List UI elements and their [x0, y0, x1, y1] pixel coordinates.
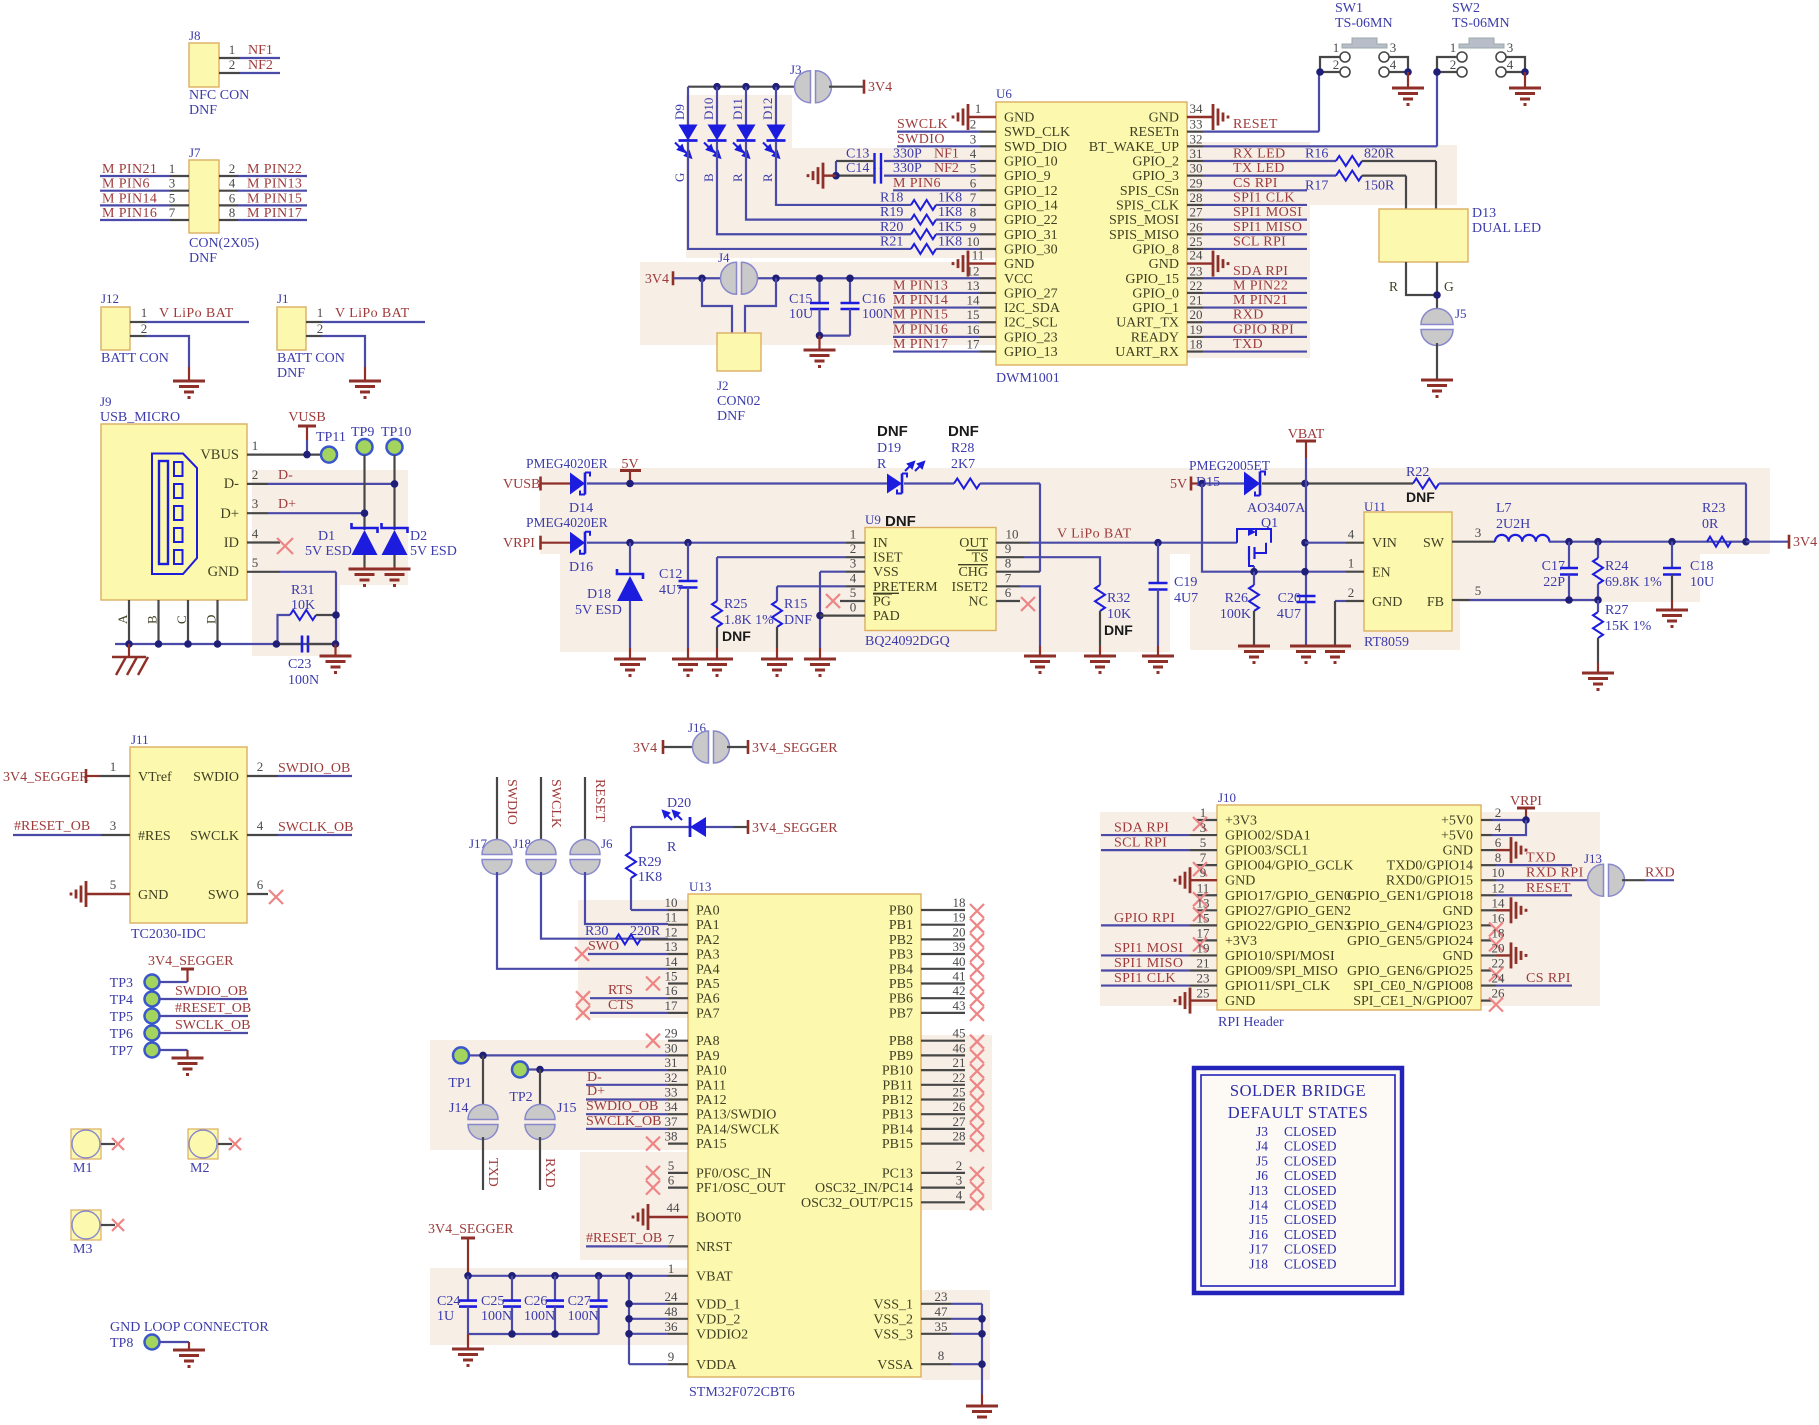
svg-text:PMEG4020ER: PMEG4020ER: [526, 456, 608, 471]
svg-text:NF2: NF2: [248, 58, 273, 73]
svg-text:CLOSED: CLOSED: [1284, 1212, 1337, 1227]
svg-text:+5V0: +5V0: [1441, 829, 1473, 844]
svg-text:820R: 820R: [1364, 146, 1395, 161]
junction TP9/D+: [361, 509, 369, 517]
svg-text:M PIN13: M PIN13: [247, 177, 302, 192]
svg-text:V LiPo BAT: V LiPo BAT: [335, 306, 410, 321]
testpoint TP6 net SWCLK_OB: [110, 1018, 251, 1042]
svg-text:PMEG2005ET: PMEG2005ET: [1189, 458, 1271, 473]
svg-text:21: 21: [1190, 293, 1203, 308]
svg-text:SW1: SW1: [1335, 1, 1363, 16]
svg-text:R24: R24: [1605, 559, 1628, 574]
wire J11 pin2 net SWDIO_OB: [247, 759, 352, 776]
svg-text:#RESET_OB: #RESET_OB: [586, 1231, 662, 1246]
svg-text:SOLDER BRIDGE: SOLDER BRIDGE: [1230, 1081, 1366, 1100]
svg-text:48: 48: [665, 1304, 678, 1319]
ground SW2: [1509, 72, 1541, 105]
wire J10 pin19 net SPI1_MOSI: [1101, 940, 1217, 956]
svg-text:27: 27: [953, 1114, 967, 1129]
svg-text:GPIO11/SPI_CLK: GPIO11/SPI_CLK: [1225, 979, 1330, 994]
wire U13 VSS rail to ground: [921, 1289, 982, 1405]
capacitor C12 4U7: [659, 543, 698, 658]
wire U6 pin20 net RXD: [1187, 307, 1307, 323]
svg-text:PB5: PB5: [889, 977, 913, 992]
svg-text:5: 5: [169, 190, 176, 205]
junction C23 right: [332, 640, 340, 648]
wire U13 PF1 no-connect: [646, 1173, 688, 1195]
svg-text:14: 14: [1492, 895, 1506, 910]
svg-text:SPI1 MOSI: SPI1 MOSI: [1233, 205, 1302, 220]
svg-text:SWCLK_OB: SWCLK_OB: [175, 1018, 250, 1033]
svg-text:12: 12: [967, 263, 980, 278]
svg-text:SWDIO_OB: SWDIO_OB: [278, 761, 350, 776]
wire to 3V4 output bar: [1746, 541, 1789, 543]
svg-text:69.8K 1%: 69.8K 1%: [1605, 575, 1662, 590]
wire J9 shield rail: [115, 643, 336, 645]
svg-text:PB13: PB13: [882, 1108, 913, 1123]
wire J11 pin3 net #RESET_OB: [13, 818, 130, 835]
svg-text:IN: IN: [873, 536, 888, 551]
wire J9 pin4 ID no-connect: [247, 526, 293, 554]
svg-text:1.8K 1%: 1.8K 1%: [724, 613, 774, 628]
wire D10 cathode to R20: [717, 141, 911, 234]
connector J12 BATT CON: [101, 291, 169, 366]
svg-text:18: 18: [1190, 337, 1203, 352]
svg-text:1: 1: [1333, 40, 1340, 55]
svg-text:17: 17: [1197, 925, 1211, 940]
svg-text:PA15: PA15: [696, 1137, 727, 1152]
svg-text:DNF: DNF: [877, 423, 908, 440]
svg-text:J9: J9: [100, 394, 112, 409]
wire U11 pin1 EN: [1346, 556, 1364, 572]
svg-text:STM32F072CBT6: STM32F072CBT6: [689, 1385, 795, 1400]
svg-text:GPIO_15: GPIO_15: [1125, 272, 1179, 287]
svg-text:SWCLK_OB: SWCLK_OB: [278, 820, 353, 835]
wire U13 PA13 net SWDIO_OB: [586, 1099, 688, 1114]
junction J4 left / J2 branch: [698, 274, 706, 282]
svg-text:R23: R23: [1702, 501, 1725, 516]
svg-text:PA2: PA2: [696, 933, 720, 948]
wire C13/C14 common to ground: [823, 161, 840, 179]
connector J8 NFC CON: [189, 28, 249, 118]
ground U6 pin34: [1187, 101, 1228, 130]
svg-text:1U: 1U: [437, 1309, 454, 1324]
svg-text:2K7: 2K7: [951, 457, 975, 472]
svg-text:33: 33: [665, 1085, 678, 1100]
solder bridge J5: [1421, 306, 1467, 346]
svg-text:GPIO_GEN6/GPIO25: GPIO_GEN6/GPIO25: [1347, 964, 1473, 979]
capacitor C25 100N: [481, 1276, 521, 1334]
svg-text:CLOSED: CLOSED: [1284, 1183, 1337, 1198]
svg-text:PA11: PA11: [696, 1078, 726, 1093]
ic U6 DWM1001: [996, 86, 1187, 386]
svg-text:J5: J5: [1455, 306, 1467, 321]
svg-text:1: 1: [1348, 556, 1355, 571]
svg-text:11: 11: [1197, 880, 1210, 895]
svg-text:PA6: PA6: [696, 992, 720, 1007]
wire U13 PA14 net SWCLK_OB: [586, 1114, 688, 1129]
svg-text:2: 2: [252, 467, 259, 482]
svg-text:GPIO27/GPIO_GEN2: GPIO27/GPIO_GEN2: [1225, 904, 1351, 919]
wire U6 pin21 net M_PIN21: [1187, 293, 1307, 309]
testpoint TP11: [316, 430, 346, 463]
svg-text:PF0/OSC_IN: PF0/OSC_IN: [696, 1166, 771, 1181]
capacitor C17 22P: [1542, 542, 1578, 600]
wire U13 OSC32_IN/PC14 no-connect: [921, 1173, 984, 1196]
svg-text:BATT CON: BATT CON: [101, 351, 169, 366]
svg-text:GND: GND: [1225, 874, 1255, 889]
wire J10 pin20: [1481, 940, 1526, 968]
svg-text:3V4_SEGGER: 3V4_SEGGER: [428, 1222, 514, 1237]
svg-text:2U2H: 2U2H: [1496, 517, 1530, 532]
svg-text:G: G: [1444, 279, 1454, 294]
resistor R21 1K8: [880, 234, 996, 254]
svg-text:46: 46: [953, 1040, 967, 1055]
svg-text:C20: C20: [1278, 591, 1301, 606]
svg-text:DNF: DNF: [722, 628, 751, 644]
mounting hole M1: [71, 1129, 124, 1176]
svg-text:23: 23: [1197, 971, 1210, 986]
wire U6 pin15 net M_PIN15: [893, 307, 996, 323]
wire U6 pin28 net SPI1_CLK: [1187, 190, 1307, 206]
wire U13 PA7 net CTS: [576, 998, 688, 1020]
svg-text:3: 3: [110, 818, 117, 833]
junction R24: [1594, 538, 1602, 546]
svg-text:14: 14: [967, 293, 981, 308]
svg-text:RT8059: RT8059: [1364, 635, 1409, 650]
svg-text:PB12: PB12: [882, 1093, 913, 1108]
svg-text:9: 9: [970, 219, 977, 234]
wire U9 pin6 NC no-connect: [996, 585, 1035, 611]
svg-text:PB4: PB4: [889, 962, 913, 977]
svg-text:RXD: RXD: [1233, 308, 1264, 323]
wire U9 pin10 OUT net V_LiPo_BAT: [996, 527, 1158, 543]
solder bridge J3: [790, 62, 832, 103]
svg-text:GPIO_14: GPIO_14: [1004, 198, 1058, 213]
svg-text:4U7: 4U7: [659, 583, 683, 598]
svg-text:M PIN14: M PIN14: [893, 293, 948, 308]
svg-text:VDD_1: VDD_1: [696, 1297, 740, 1312]
svg-text:D14: D14: [569, 501, 593, 516]
ground C18: [1656, 610, 1688, 627]
svg-text:22: 22: [953, 1070, 966, 1085]
svg-text:220R: 220R: [630, 924, 661, 939]
svg-text:10: 10: [1492, 865, 1505, 880]
svg-text:8: 8: [1495, 850, 1502, 865]
switch SW1 TS-06MN: [1320, 1, 1408, 77]
svg-text:C16: C16: [862, 292, 885, 307]
svg-text:J15: J15: [557, 1101, 576, 1116]
svg-text:J4: J4: [1256, 1139, 1268, 1154]
svg-text:OUT: OUT: [959, 536, 988, 551]
junction VBAT rail C25: [508, 1272, 516, 1280]
svg-text:D1: D1: [318, 529, 335, 544]
svg-text:OSC32_OUT/PC15: OSC32_OUT/PC15: [801, 1196, 913, 1211]
svg-text:C18: C18: [1690, 559, 1713, 574]
svg-text:CON(2X05): CON(2X05): [189, 236, 259, 251]
svg-text:J2: J2: [717, 378, 729, 393]
junction VBAT rail C27: [595, 1272, 603, 1280]
svg-text:D2: D2: [410, 529, 427, 544]
svg-text:BOOT0: BOOT0: [696, 1211, 741, 1226]
wire U13 PA8 no-connect: [646, 1026, 688, 1048]
svg-text:2: 2: [850, 541, 857, 556]
diode D14 PMEG4020ER: [526, 456, 608, 516]
svg-text:M PIN15: M PIN15: [893, 308, 948, 323]
svg-text:DNF: DNF: [189, 251, 217, 266]
svg-text:25: 25: [1197, 986, 1210, 1001]
chassis ground J9: [112, 644, 148, 675]
junction VDD_1: [625, 1300, 633, 1308]
wire U13 PA1 from J6: [665, 910, 688, 925]
svg-text:M PIN21: M PIN21: [1233, 293, 1288, 308]
svg-text:22P: 22P: [1543, 575, 1565, 590]
svg-text:TP2: TP2: [509, 1090, 532, 1105]
power 5V: [620, 457, 641, 484]
svg-text:J6: J6: [601, 836, 613, 851]
svg-text:J16: J16: [1249, 1227, 1268, 1242]
resistor R28 2K7 DNF: [948, 423, 1040, 489]
svg-text:J5: J5: [1256, 1153, 1268, 1168]
svg-text:BQ24092DGQ: BQ24092DGQ: [865, 634, 950, 649]
ground C20: [1290, 646, 1322, 663]
svg-text:ISET: ISET: [873, 551, 903, 566]
svg-text:SWCLK: SWCLK: [190, 829, 239, 844]
wire U13 PA4 from J17: [665, 954, 689, 969]
wire D15 to VBAT node and R22: [1262, 482, 1413, 484]
svg-text:GPIO_9: GPIO_9: [1004, 169, 1051, 184]
wire U11 pin5 FB row: [1452, 583, 1598, 600]
svg-text:U6: U6: [996, 86, 1012, 101]
svg-text:11: 11: [665, 910, 678, 925]
wire J1 pin1 net V_LiPo_BAT: [306, 305, 425, 322]
svg-text:TP8: TP8: [110, 1336, 133, 1351]
wire J3 to 3V4: [829, 86, 864, 88]
svg-text:SPI_CE1_N/GPIO07: SPI_CE1_N/GPIO07: [1353, 994, 1473, 1009]
wire U13 PB4 no-connect: [921, 954, 984, 977]
led D11 colour R: [730, 87, 756, 182]
junction SW1 right: [1404, 68, 1412, 76]
power 3V4 output: [1789, 535, 1817, 551]
wire J11 pin1 net 3V4_SEGGER: [3, 759, 130, 785]
svg-text:SWD_CLK: SWD_CLK: [1004, 125, 1070, 140]
svg-text:SWO: SWO: [208, 888, 239, 903]
junction TP10/D-: [391, 480, 399, 488]
svg-text:EN: EN: [1372, 566, 1391, 581]
resistor R26 100K: [1220, 572, 1259, 646]
ground R15: [761, 659, 793, 676]
U13 right pin names: [801, 904, 914, 1373]
svg-text:M PIN13: M PIN13: [893, 278, 948, 293]
svg-text:PB15: PB15: [882, 1137, 913, 1152]
wire J8 pin1 net NF1: [219, 42, 280, 58]
wire U13 PB1 no-connect: [921, 910, 984, 933]
solder bridge J16 3V4 to 3V4_SEGGER: [633, 720, 838, 763]
svg-text:NC: NC: [969, 595, 988, 610]
resistor R29 1K8: [626, 827, 662, 910]
svg-text:5V ESD: 5V ESD: [410, 544, 457, 559]
junction 5V/EN branch: [1198, 480, 1206, 488]
wire J10 pin5 net SCL_RPI: [1101, 835, 1217, 851]
svg-text:R20: R20: [880, 220, 903, 235]
svg-text:RXD0/GPIO15: RXD0/GPIO15: [1386, 874, 1473, 889]
svg-text:SPI_CE0_N/GPIO08: SPI_CE0_N/GPIO08: [1353, 979, 1473, 994]
solder bridge J13 net RXD: [1584, 851, 1675, 896]
capacitor C14 330P: [836, 161, 881, 184]
svg-text:#RESET_OB: #RESET_OB: [14, 819, 90, 834]
svg-text:GPIO_30: GPIO_30: [1004, 242, 1058, 257]
svg-text:GND: GND: [1225, 994, 1255, 1009]
svg-text:GPIO_23: GPIO_23: [1004, 330, 1058, 345]
svg-text:SWDIO: SWDIO: [504, 779, 519, 825]
svg-text:10K: 10K: [291, 598, 315, 613]
wire U6 pin27 net SPI1_MOSI: [1187, 205, 1307, 221]
diode D1 5V ESD: [305, 523, 378, 569]
svg-text:GND: GND: [208, 564, 239, 580]
svg-text:1: 1: [252, 438, 259, 453]
svg-text:D9: D9: [672, 104, 687, 120]
svg-text:1: 1: [317, 305, 324, 320]
wire J1 pin2 to ground: [306, 321, 365, 380]
wire J12 pin1 net V_LiPo_BAT: [130, 305, 249, 322]
svg-text:2: 2: [1333, 57, 1340, 72]
svg-text:20: 20: [1190, 307, 1203, 322]
ground R26: [1238, 646, 1270, 663]
wire J10 pin10: [1481, 865, 1589, 881]
svg-text:TP11: TP11: [316, 430, 346, 445]
svg-text:2: 2: [229, 57, 236, 72]
solder bridge J18 net SWCLK: [513, 777, 563, 875]
junction SW2 right: [1521, 68, 1529, 76]
svg-text:TP1: TP1: [448, 1076, 471, 1091]
svg-text:GPIO_31: GPIO_31: [1004, 228, 1058, 243]
svg-text:RPI Header: RPI Header: [1218, 1015, 1284, 1030]
svg-text:BATT CON: BATT CON: [277, 351, 345, 366]
svg-text:PB11: PB11: [882, 1078, 913, 1093]
wire D19 to R28: [904, 482, 954, 484]
svg-text:330P: 330P: [893, 161, 922, 176]
svg-text:18: 18: [953, 895, 966, 910]
wire U13 PB3 no-connect: [921, 939, 984, 962]
svg-text:VSS: VSS: [873, 565, 899, 580]
junction VDDIO2: [625, 1330, 633, 1338]
svg-text:CLOSED: CLOSED: [1284, 1198, 1337, 1213]
svg-text:24: 24: [1190, 248, 1204, 263]
junction VBUS/VUSB: [303, 451, 311, 459]
junction VBAT rail C24: [464, 1272, 472, 1280]
svg-text:32: 32: [665, 1070, 678, 1085]
transistor Q1 AO3407A: [1237, 501, 1306, 572]
svg-text:CS RPI: CS RPI: [1233, 176, 1278, 191]
svg-text:26: 26: [1190, 219, 1204, 234]
svg-text:VUSB: VUSB: [288, 410, 325, 425]
ground U13 BOOT0: [633, 1200, 688, 1230]
resistor R18 1K8: [880, 190, 996, 210]
svg-text:DNF: DNF: [1104, 622, 1133, 638]
wire U13 PA9 from TP1: [483, 1040, 688, 1055]
power 5V at D15: [1170, 477, 1244, 493]
svg-text:C17: C17: [1542, 559, 1565, 574]
svg-text:R30: R30: [585, 924, 608, 939]
svg-text:1K8: 1K8: [938, 190, 962, 205]
wire J18 to U13: [541, 872, 668, 939]
svg-text:5V ESD: 5V ESD: [575, 603, 622, 618]
junction D13 R/G: [1433, 291, 1441, 299]
svg-text:PA12: PA12: [696, 1093, 727, 1108]
svg-text:17: 17: [967, 337, 981, 352]
svg-text:PA3: PA3: [696, 948, 720, 963]
wire J9 pin2 net D-: [247, 467, 395, 484]
capacitor C13 330P: [836, 146, 881, 169]
svg-text:34: 34: [1190, 101, 1204, 116]
svg-text:M PIN16: M PIN16: [893, 322, 948, 337]
junction VBAT top: [1301, 480, 1309, 488]
connector J1 BATT CON: [277, 291, 345, 381]
led D10 colour B: [701, 87, 727, 182]
svg-text:GPIO_0: GPIO_0: [1132, 286, 1179, 301]
svg-text:4: 4: [257, 818, 264, 833]
wire D16 to U9 IN: [587, 542, 846, 544]
svg-text:3V4_SEGGER: 3V4_SEGGER: [3, 770, 89, 785]
svg-text:GND: GND: [1372, 595, 1402, 610]
ic U9 BQ24092DGQ (DNF): [865, 512, 996, 649]
wire J5 to ground: [1436, 343, 1438, 379]
capacitor C23 100N: [276, 636, 336, 689]
svg-text:RESETn: RESETn: [1129, 125, 1179, 140]
svg-text:PF1/OSC_OUT: PF1/OSC_OUT: [696, 1181, 786, 1196]
svg-text:26: 26: [953, 1099, 967, 1114]
led D12 colour R: [760, 87, 786, 182]
svg-text:8: 8: [1005, 556, 1012, 571]
svg-text:R25: R25: [724, 597, 747, 612]
svg-text:31: 31: [665, 1055, 678, 1070]
junction shield rail C23 left: [273, 640, 281, 648]
U13 left pin names: [696, 904, 786, 1373]
svg-text:6: 6: [1495, 835, 1502, 850]
svg-text:J13: J13: [1249, 1183, 1268, 1198]
svg-text:R: R: [730, 173, 745, 182]
wire U13 VBAT rail: [468, 1261, 688, 1276]
svg-text:PA5: PA5: [696, 977, 720, 992]
ground TP7: [172, 1058, 204, 1075]
svg-text:35: 35: [935, 1319, 948, 1334]
wire U13 PA3 net SWO: [575, 939, 688, 961]
svg-text:R28: R28: [951, 441, 974, 456]
wire J7 pin7 net M_PIN16: [100, 205, 189, 221]
svg-text:PB10: PB10: [882, 1064, 913, 1079]
diode D2 5V ESD: [382, 523, 457, 569]
wire J10 pin25: [1175, 986, 1217, 1014]
svg-text:10U: 10U: [1690, 575, 1714, 590]
ground U6 pin11: [953, 248, 996, 277]
svg-text:DNF: DNF: [784, 613, 812, 628]
svg-text:CTS: CTS: [608, 998, 634, 1013]
svg-text:+5V0: +5V0: [1441, 814, 1473, 829]
ground D1: [349, 569, 381, 586]
svg-text:PA13/SWDIO: PA13/SWDIO: [696, 1108, 776, 1123]
svg-text:GPIO_27: GPIO_27: [1004, 286, 1058, 301]
testpoint TP8 GND loop connector: [110, 1320, 269, 1351]
wire J10 pin2 +5V0 net VRPI: [1481, 805, 1526, 820]
svg-text:PMEG4020ER: PMEG4020ER: [526, 515, 608, 530]
wire U6 pin6 net M_PIN6: [893, 175, 996, 191]
svg-text:1: 1: [229, 42, 236, 57]
svg-text:SWCLK: SWCLK: [897, 117, 948, 132]
capacitor C16 100N: [820, 278, 894, 335]
junction VBAT rail C26: [551, 1272, 559, 1280]
wire J7 pin1 net M_PIN21: [100, 161, 189, 177]
ic D13 DUAL LED: [1379, 206, 1541, 262]
